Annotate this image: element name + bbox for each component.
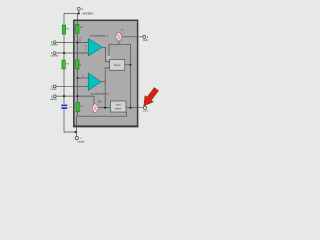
svg-text:+ BATERIA: + BATERIA bbox=[81, 11, 94, 15]
svg-text:ajuste: ajuste bbox=[51, 98, 58, 101]
wire tap to comparator 2 input bbox=[78, 77, 89, 79]
terminal 3 (input B) bbox=[51, 52, 59, 58]
wire switch row to terminal bbox=[126, 107, 143, 109]
wire top rail bbox=[64, 12, 79, 14]
wire R4 bottom down to R5 bbox=[77, 69, 79, 102]
wire R1 bottom to R3 top bbox=[63, 34, 65, 60]
wire Temp output bbox=[125, 64, 131, 66]
wire comparator2 output bbox=[101, 81, 105, 83]
wire right bus vertical bbox=[130, 44, 132, 107]
wire R5 bottom to internal ground rail bbox=[77, 112, 79, 116]
node switch row bbox=[104, 107, 106, 109]
red arrow pointer bbox=[144, 88, 159, 106]
box bottom edge shading bbox=[73, 125, 138, 127]
svg-text:Temp: Temp bbox=[114, 63, 121, 67]
logic box Auto switch bbox=[111, 101, 127, 112]
contact block bbox=[107, 56, 112, 59]
comparator U1A bbox=[85, 33, 109, 56]
terminal 8 (switch out) bbox=[142, 106, 149, 112]
lamp B1 (lower) bbox=[92, 101, 102, 113]
wire comp2 output down to lamp row bbox=[104, 82, 106, 108]
wire lamp1 right to LED terminal bbox=[122, 36, 143, 38]
lamp B (upper) bbox=[116, 29, 124, 41]
svg-text:sensor: sensor bbox=[51, 44, 58, 47]
resistor R5 bbox=[76, 102, 84, 111]
resistor R1 bbox=[62, 25, 70, 34]
terminal 7 (battery minus, bottom) bbox=[75, 136, 85, 143]
svg-text:massa: massa bbox=[77, 141, 85, 144]
wire C1 bottom L to ground column bbox=[64, 109, 76, 132]
svg-text:switch: switch bbox=[115, 108, 122, 111]
wire B to comparator 1 input bbox=[56, 52, 89, 54]
wire R2 bottom to R4 top bbox=[77, 34, 79, 61]
svg-text:comparador 2: comparador 2 bbox=[91, 92, 110, 96]
svg-text:1k: 1k bbox=[79, 40, 81, 42]
node bus join bbox=[129, 107, 131, 109]
wire lamp1 bottom branch bbox=[109, 41, 131, 56]
node ground join bbox=[75, 131, 77, 133]
node D col1 bbox=[63, 95, 65, 97]
node R2 tap bbox=[77, 42, 79, 44]
node comp2 tap bbox=[77, 77, 79, 79]
wire rail down to R1 bbox=[63, 13, 65, 25]
terminal 1 (input A) bbox=[51, 41, 58, 47]
svg-text:Auto: Auto bbox=[116, 103, 122, 106]
terminal 2 (+ battery, top) bbox=[77, 7, 83, 11]
wire A to comparator 1 input bbox=[56, 42, 89, 44]
wire R3 bottom down to C1 bbox=[63, 69, 65, 104]
node Temp output bbox=[129, 64, 131, 66]
terminal 6 (input D) bbox=[51, 95, 58, 101]
svg-text:LED: LED bbox=[143, 39, 148, 42]
wire comp2 output up to logic box bbox=[105, 68, 109, 82]
resistor R2 bbox=[76, 25, 84, 34]
wire C to comparator 2 input bbox=[56, 85, 88, 87]
resistor R4 bbox=[76, 60, 82, 69]
terminal 4 (LED out) bbox=[143, 35, 149, 41]
IC module box U1 bbox=[74, 20, 138, 126]
internal ground rail bbox=[78, 112, 127, 116]
svg-text:comum: comum bbox=[51, 55, 59, 58]
node + BATERIA bbox=[78, 12, 80, 14]
wire lamp2 right to switch row bbox=[98, 107, 110, 109]
terminal 5 (input C) bbox=[51, 85, 57, 91]
logic box Temp bbox=[110, 60, 125, 71]
svg-text:medir: medir bbox=[51, 88, 57, 91]
node D col2 bbox=[77, 95, 79, 97]
comparator U1B bbox=[88, 73, 109, 96]
svg-text:comparador 1: comparador 1 bbox=[90, 33, 109, 37]
wire rail down to R2 bbox=[77, 13, 79, 24]
wire ground column to terminal bbox=[76, 116, 78, 136]
svg-text:switch: switch bbox=[142, 110, 149, 113]
wire comparator1 output bbox=[102, 47, 109, 62]
capacitor C1 bbox=[61, 105, 72, 110]
wire terminal2 down to rail bbox=[78, 10, 80, 13]
resistor R3 bbox=[62, 60, 70, 69]
wire D row to lamp2 top bbox=[56, 96, 94, 104]
node divider1 tap bbox=[63, 52, 65, 54]
